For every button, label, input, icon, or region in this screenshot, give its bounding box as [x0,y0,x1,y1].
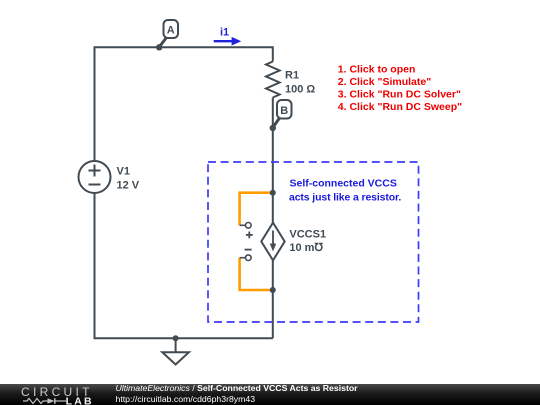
svg-text:10 m℧: 10 m℧ [289,242,323,254]
annotation red instructions [338,63,462,113]
wire top (node A net) [95,47,273,161]
svg-text:R1: R1 [285,70,299,82]
VCCS1 value label [289,228,326,254]
svg-text:12 V: 12 V [117,180,140,192]
svg-text:3. Click "Run DC Solver": 3. Click "Run DC Solver" [338,88,461,100]
junction dot node A [156,44,162,50]
voltage source V1 [79,161,111,193]
svg-text:4. Click "Run DC Sweep": 4. Click "Run DC Sweep" [338,101,462,113]
node B flag [273,100,292,128]
ground [162,338,189,364]
footer logo CIRCUIT LAB [0,384,110,405]
R1 value label [285,70,315,96]
current label i1 [214,27,242,46]
svg-text:i1: i1 [220,27,229,39]
resistor R1 [266,62,280,98]
VCCS1 diamond symbol [261,223,284,261]
svg-text:2. Click "Simulate": 2. Click "Simulate" [338,76,431,88]
svg-text:B: B [280,105,288,117]
svg-text:A: A [167,25,175,37]
svg-text:acts just like a resistor.: acts just like a resistor. [289,192,401,204]
V1 value label [117,166,140,192]
wire orange sense bottom [240,258,273,290]
VCCS1 sense terminal - [240,250,252,261]
junction dot VCCS top [270,190,276,196]
annotation blue dashed box [208,162,419,322]
svg-text:VCCS1: VCCS1 [289,228,326,240]
wire right branch (B net through VCCS) [272,98,274,339]
svg-text:1. Click to open: 1. Click to open [338,63,416,75]
svg-text:V1: V1 [117,166,130,178]
footer bar [0,384,540,405]
node A flag [159,20,178,47]
VCCS1 sense terminal + [240,223,253,239]
wire bottom (ground net) [95,193,273,338]
annotation blue text [289,177,401,203]
svg-text:LAB: LAB [66,395,94,405]
wire orange sense top [240,193,273,226]
svg-text:Self-connected VCCS: Self-connected VCCS [290,177,397,189]
junction dot VCCS bottom [270,287,276,293]
svg-text:100 Ω: 100 Ω [285,84,315,96]
footer url text [116,394,256,404]
junction dot node B [270,125,276,131]
footer title text [116,384,358,393]
junction dot ground [173,335,179,341]
